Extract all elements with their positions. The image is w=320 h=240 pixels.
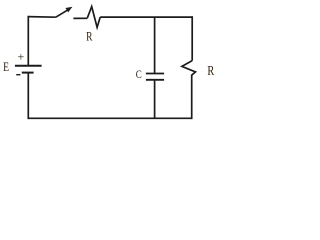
- capacitor C1 bottom plate: [146, 79, 164, 81]
- wire top rail right: [100, 16, 192, 18]
- resistor R1 zigzag: [87, 7, 100, 28]
- battery E top plate: [15, 65, 42, 67]
- capacitor C1 top plate: [146, 73, 164, 75]
- battery E bottom plate: [22, 72, 34, 74]
- svg-text:C: C: [136, 69, 142, 81]
- wire left rail upper: [27, 16, 29, 65]
- wire right rail upper: [191, 16, 193, 60]
- label E: [3, 61, 9, 75]
- svg-text:R: R: [207, 63, 214, 79]
- wire after switch: [73, 17, 87, 19]
- resistor R2 zigzag: [182, 61, 196, 76]
- label C1: [136, 69, 142, 81]
- switch S1 arrowhead: [66, 7, 73, 13]
- wire right rail lower: [191, 75, 193, 119]
- wire middle branch upper: [154, 17, 156, 73]
- svg-text:E: E: [3, 61, 9, 75]
- wire middle branch lower: [154, 80, 156, 118]
- switch S1 arm: [56, 10, 68, 18]
- wire left rail lower (battery to bottom): [27, 74, 29, 120]
- wire bottom rail: [28, 117, 193, 119]
- svg-text:+: +: [18, 49, 25, 63]
- wire top-left segment: [28, 16, 56, 19]
- label R2: [207, 63, 214, 79]
- battery minus dash: [16, 74, 20, 76]
- label R1: [86, 30, 93, 44]
- svg-text:R: R: [86, 30, 93, 44]
- battery plus sign: [18, 49, 25, 63]
